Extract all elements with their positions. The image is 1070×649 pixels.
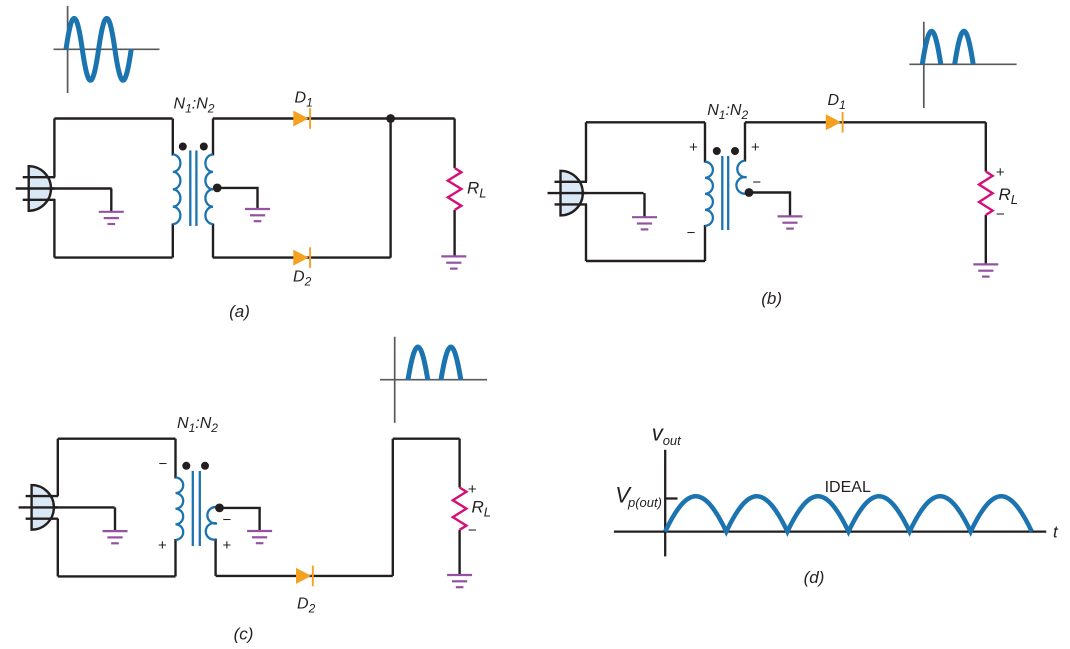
svg-text:D2: D2 — [297, 596, 316, 616]
svg-text:RL: RL — [472, 498, 492, 520]
svg-text:−: − — [996, 206, 1005, 223]
svg-text:−: − — [223, 512, 232, 529]
svg-text:RL: RL — [467, 179, 487, 201]
svg-text:D1: D1 — [828, 92, 846, 112]
svg-text:t: t — [1053, 523, 1059, 542]
svg-text:+: + — [468, 481, 477, 498]
svg-text:(b): (b) — [761, 289, 782, 308]
svg-text:(d): (d) — [804, 568, 825, 587]
svg-text:−: − — [159, 456, 168, 473]
svg-text:Vp(out): Vp(out) — [615, 482, 662, 510]
svg-text:N1:N2: N1:N2 — [707, 102, 748, 122]
svg-text:(c): (c) — [234, 625, 254, 644]
svg-text:+: + — [689, 139, 698, 156]
svg-text:+: + — [158, 537, 167, 554]
svg-text:N1:N2: N1:N2 — [177, 415, 218, 435]
svg-text:(a): (a) — [229, 302, 250, 321]
svg-text:+: + — [751, 139, 760, 156]
svg-text:IDEAL: IDEAL — [825, 479, 871, 496]
svg-text:−: − — [468, 522, 477, 539]
svg-text:D1: D1 — [295, 89, 313, 109]
svg-text:−: − — [752, 174, 761, 191]
svg-text:D2: D2 — [293, 269, 312, 289]
svg-text:vout: vout — [652, 421, 682, 449]
svg-text:+: + — [996, 164, 1005, 181]
svg-text:N1:N2: N1:N2 — [174, 96, 215, 116]
svg-text:RL: RL — [999, 185, 1019, 207]
svg-text:+: + — [223, 537, 232, 554]
svg-text:−: − — [687, 225, 696, 242]
